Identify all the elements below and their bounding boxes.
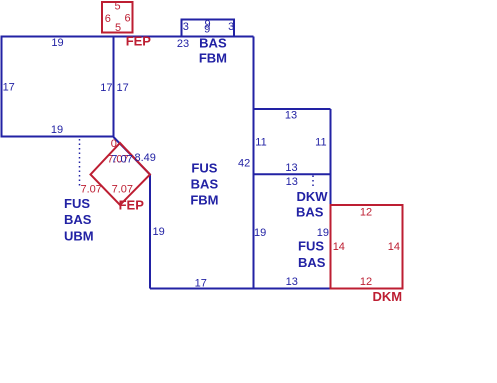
svg-text:6: 6	[105, 13, 111, 25]
svg-text:11: 11	[315, 137, 326, 149]
svg-text:17: 17	[100, 82, 112, 94]
svg-text:UBM: UBM	[64, 229, 94, 244]
svg-text:14: 14	[333, 241, 345, 253]
area outline: red FEP rectangle top (5x6)	[102, 2, 133, 33]
svg-text:5: 5	[114, 1, 120, 13]
wire: upper-right rect bottom edge y=174.3	[254, 173, 331, 175]
svg-text:FUS: FUS	[191, 161, 217, 176]
svg-text:7.07: 7.07	[112, 183, 133, 195]
svg-text:19: 19	[153, 226, 165, 238]
svg-text:0: 0	[111, 138, 117, 150]
svg-text:9: 9	[204, 23, 210, 35]
area outline: top-left rectangle (19x17)	[2, 37, 114, 137]
svg-text:FBM: FBM	[190, 193, 218, 208]
wire: dotted divider DKW	[312, 176, 314, 187]
wire: upper-right rect top edge y=109	[254, 108, 331, 110]
svg-text:12: 12	[360, 207, 372, 219]
svg-text:BAS: BAS	[296, 205, 324, 220]
svg-text:19: 19	[51, 37, 63, 49]
wire: dotted divider below top-left rect	[79, 139, 81, 187]
svg-text:BAS: BAS	[298, 255, 326, 270]
svg-text:13: 13	[286, 176, 298, 188]
svg-text:17: 17	[3, 82, 15, 94]
wire: blue diagonal 8.49 from rect corner to x=150	[114, 137, 151, 175]
svg-text:FEP: FEP	[126, 33, 152, 48]
svg-text:19: 19	[51, 124, 63, 136]
svg-text:7.07: 7.07	[81, 183, 102, 195]
svg-text:FBM: FBM	[199, 51, 227, 66]
svg-text:17: 17	[195, 277, 207, 289]
wire: middle-left vertical wall x=150	[149, 175, 151, 289]
svg-text:FUS: FUS	[64, 196, 90, 211]
svg-text:3: 3	[228, 21, 234, 33]
svg-text:3: 3	[183, 21, 189, 33]
wire: top horizontal wall y=36.5 from rect to x=253.5	[114, 36, 254, 38]
svg-text:DKW: DKW	[297, 189, 329, 204]
svg-text:7.07: 7.07	[111, 154, 132, 166]
svg-text:8.49: 8.49	[135, 152, 156, 164]
svg-text:BAS: BAS	[64, 212, 92, 227]
wire: bottom wall y=288.5	[150, 288, 331, 290]
svg-text:14: 14	[388, 241, 400, 253]
svg-text:5: 5	[115, 22, 121, 34]
svg-text:19: 19	[254, 227, 266, 239]
svg-text:DKM: DKM	[373, 289, 403, 304]
svg-text:FEP: FEP	[119, 198, 145, 213]
svg-text:17: 17	[117, 82, 129, 94]
svg-text:BAS: BAS	[191, 177, 219, 192]
svg-text:FUS: FUS	[298, 239, 324, 254]
svg-text:6: 6	[125, 13, 131, 25]
area outline: red DKM rectangle (12x14)	[331, 205, 403, 289]
svg-text:12: 12	[360, 276, 372, 288]
svg-text:42: 42	[238, 158, 250, 170]
svg-text:11: 11	[255, 137, 266, 149]
svg-text:13: 13	[286, 276, 298, 288]
wire: right vertical wall x=330.5 blue part	[330, 109, 332, 204]
svg-text:19: 19	[317, 227, 329, 239]
area outline: red FEP diamond	[91, 143, 151, 205]
svg-text:13: 13	[285, 110, 297, 122]
svg-text:13: 13	[285, 162, 297, 174]
svg-text:23: 23	[177, 38, 189, 50]
svg-text:BAS: BAS	[199, 36, 227, 51]
area outline: small top bay rectangle (9x3)	[182, 20, 235, 37]
wire: main right vertical wall x=253.5	[253, 37, 255, 289]
